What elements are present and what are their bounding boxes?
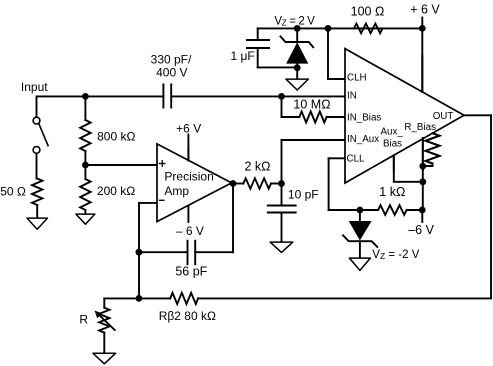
svg-text:Rβ2 80 kΩ: Rβ2 80 kΩ: [159, 309, 216, 323]
svg-text:CLL: CLL: [347, 154, 366, 165]
svg-text:800 kΩ: 800 kΩ: [97, 130, 135, 144]
svg-text:VZ = 2 V: VZ = 2 V: [274, 15, 315, 27]
svg-text:VZ = -2 V: VZ = -2 V: [372, 249, 419, 261]
svg-text:330 pF/: 330 pF/: [151, 53, 192, 67]
svg-text:Bias: Bias: [383, 139, 402, 150]
svg-text:10 pF: 10 pF: [288, 188, 319, 202]
svg-text:+ 6 V: + 6 V: [410, 3, 440, 17]
svg-text:IN_Bias: IN_Bias: [347, 112, 381, 123]
svg-text:IN_Aux: IN_Aux: [347, 134, 379, 145]
svg-text:Precision: Precision: [164, 169, 213, 183]
svg-text:1 kΩ: 1 kΩ: [379, 185, 405, 199]
svg-text:100 Ω: 100 Ω: [351, 5, 385, 19]
svg-text:200 kΩ: 200 kΩ: [97, 184, 135, 198]
svg-text:50 Ω: 50 Ω: [0, 185, 26, 199]
svg-text:10 MΩ: 10 MΩ: [293, 98, 330, 112]
svg-text:Input: Input: [21, 80, 48, 94]
svg-text:OUT: OUT: [433, 111, 454, 122]
svg-text:2 kΩ: 2 kΩ: [244, 160, 270, 174]
svg-text:R: R: [79, 312, 88, 326]
svg-text:1 μF: 1 μF: [231, 49, 255, 63]
svg-text:– 6 V: – 6 V: [176, 224, 204, 238]
svg-text:CLH: CLH: [347, 73, 367, 84]
svg-text:Aux_: Aux_: [381, 127, 404, 138]
svg-text:56 pF: 56 pF: [175, 264, 207, 278]
svg-text:400 V: 400 V: [156, 66, 187, 80]
svg-text:IN: IN: [347, 90, 357, 101]
svg-text:–6 V: –6 V: [408, 223, 434, 237]
svg-text:Amp: Amp: [164, 184, 189, 198]
svg-text:+6 V: +6 V: [176, 122, 201, 136]
svg-text:R_Bias: R_Bias: [404, 122, 436, 133]
